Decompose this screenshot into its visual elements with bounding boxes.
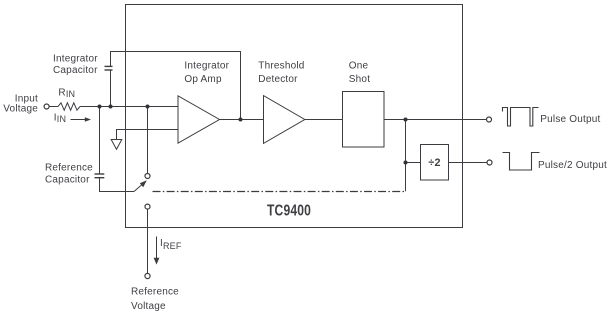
waveform pulse output icon <box>503 108 539 127</box>
terminal reference voltage <box>145 273 150 278</box>
node op-amp output junction <box>239 118 243 122</box>
svg-text:Voltage: Voltage <box>131 301 166 312</box>
switch arm <box>134 183 144 191</box>
one shot box <box>343 92 385 148</box>
svg-text:TC9400: TC9400 <box>267 202 311 219</box>
terminal pulse/2 output <box>487 160 492 165</box>
terminal pulse output <box>487 117 492 122</box>
wire feedback path from op-amp output to integrator capacitor <box>111 52 241 120</box>
wire input terminal to resistor <box>49 106 58 108</box>
terminal switch upper contact <box>145 174 150 179</box>
switch arm arrowhead <box>140 180 147 187</box>
svg-text:Capacitor: Capacitor <box>53 65 98 76</box>
ground symbol <box>111 140 122 150</box>
node integrator-cap junction <box>109 105 113 109</box>
wire input node down to reference capacitor <box>99 107 101 175</box>
open terminals <box>44 104 492 279</box>
wire input node down to switch upper contact <box>147 107 149 174</box>
wire one-shot node down to switch control linkage <box>405 120 407 192</box>
capacitor reference (plates) <box>95 174 105 178</box>
svg-text:Detector: Detector <box>258 74 298 85</box>
svg-text:Shot: Shot <box>349 74 370 85</box>
divide-by-2 box <box>421 145 449 181</box>
svg-text:Voltage: Voltage <box>3 104 38 115</box>
wire op-amp minus input to ground <box>117 130 179 140</box>
op-amp U1 integrator triangle <box>178 96 220 143</box>
svg-text:IIN: IIN <box>54 112 66 124</box>
wire node to divide-by-2 box <box>406 162 421 164</box>
svg-text:÷2: ÷2 <box>428 157 440 169</box>
arrow IIN <box>71 117 92 122</box>
capacitor integrator (plates) <box>105 66 113 70</box>
op-amp U2 threshold detector triangle <box>264 96 305 144</box>
terminal switch lower contact <box>145 204 150 209</box>
junction dots <box>98 105 408 165</box>
dash-dot control line <box>153 191 407 193</box>
node one-shot output junction <box>404 118 408 122</box>
node switch junction <box>146 105 150 109</box>
terminal input voltage <box>44 104 49 109</box>
outer box TC9400 <box>126 5 463 228</box>
svg-text:Pulse/2 Output: Pulse/2 Output <box>538 160 607 171</box>
svg-text:One: One <box>349 61 369 72</box>
wire reference capacitor to switch pivot <box>100 178 135 192</box>
svg-text:Integrator: Integrator <box>53 53 98 64</box>
svg-text:Reference: Reference <box>45 163 93 174</box>
wire capacitor bottom to input node <box>110 70 112 107</box>
wire switch lower contact down to reference voltage terminal <box>147 209 149 273</box>
svg-text:Reference: Reference <box>131 287 179 298</box>
svg-text:Threshold: Threshold <box>258 61 304 72</box>
svg-text:Pulse Output: Pulse Output <box>540 114 600 125</box>
node input-cap junction <box>98 105 102 109</box>
svg-text:Op Amp: Op Amp <box>184 74 222 85</box>
svg-text:Integrator: Integrator <box>184 61 229 72</box>
waveform pulse/2 output icon <box>503 153 540 171</box>
svg-text:RIN: RIN <box>58 88 75 100</box>
svg-text:Capacitor: Capacitor <box>45 175 90 186</box>
svg-text:IREF: IREF <box>160 238 182 251</box>
wire threshold detector to one-shot <box>305 119 343 121</box>
wire divide-by-2 to pulse/2 terminal <box>449 162 488 164</box>
node divide-by-2 junction <box>404 161 408 165</box>
wire integrator op-amp output to threshold detector <box>220 119 264 121</box>
arrow IREF <box>154 237 160 265</box>
wire resistor to op-amp + input <box>80 106 178 108</box>
resistor RIN zigzag <box>58 103 80 110</box>
wire one-shot output to pulse output terminal <box>384 119 486 121</box>
